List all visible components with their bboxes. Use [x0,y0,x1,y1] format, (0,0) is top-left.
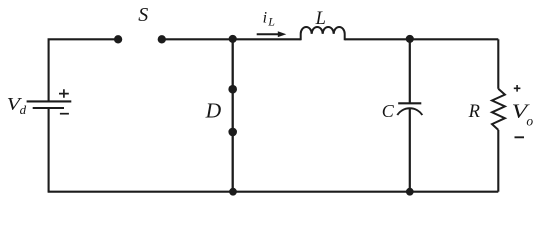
inductor L [301,27,345,40]
node: diode bottom junction [229,188,237,196]
switch right terminal node [158,35,166,43]
svg-text:R: R [468,102,480,122]
wire right rail bottom [497,130,499,192]
battery plus sign [59,89,69,98]
svg-text:o: o [526,114,533,129]
capacitor C top plate [398,102,421,104]
wire capacitor top lead [409,39,411,102]
battery minus sign [60,113,69,115]
svg-text:L: L [315,9,326,29]
battery Vd bottom plate [33,107,64,109]
node: capacitor bottom junction [406,188,414,196]
node: diode top junction [229,35,237,43]
wire right rail top [497,39,499,89]
diode anode dot [228,128,237,137]
svg-text:d: d [20,102,27,117]
wire capacitor bottom lead [409,109,411,192]
arrowhead of iL [278,31,287,37]
svg-text:D: D [205,99,222,123]
svg-text:L: L [267,15,275,29]
wire top-left: battery positive up and right to switch [49,39,118,101]
capacitor C curved plate [397,108,422,115]
switch left terminal node [114,35,122,43]
wire switch right terminal to inductor [162,38,301,40]
svg-text:i: i [263,10,267,27]
resistor R zigzag [492,89,505,130]
plus sign of Vo [514,85,521,92]
wire battery negative down to bottom-left corner [48,108,50,192]
diode cathode dot [228,85,237,94]
node: capacitor top junction [406,35,414,43]
svg-text:C: C [382,101,395,121]
svg-text:S: S [138,4,148,26]
current arrow iL [257,33,280,35]
minus sign of Vo [515,136,525,138]
wire inductor to top-right corner [345,38,499,40]
wire diode branch [232,39,234,191]
bottom rail wire [48,191,499,193]
battery Vd top plate [27,100,72,102]
